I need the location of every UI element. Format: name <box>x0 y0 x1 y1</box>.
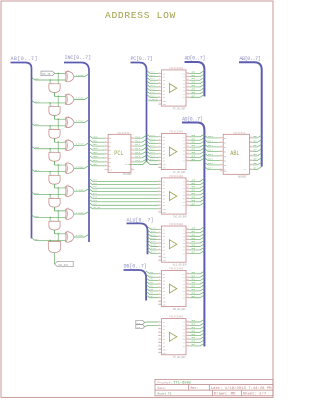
wire PCL6 to IC2 pin <box>147 155 159 158</box>
wire AD0 from IC6 pin <box>189 319 204 322</box>
pin stub right Q2 of ABL <box>250 146 253 148</box>
AND gate carry row 6 <box>49 221 60 230</box>
wire PCL6 to IC1 pin <box>147 91 159 94</box>
wire INC_IN to gate <box>55 72 66 74</box>
pin stub left A1 of IC1 <box>158 72 161 74</box>
XOR gate row 4 <box>64 163 67 173</box>
wire carry into row 5 <box>55 184 66 188</box>
wire carry out row 6 <box>54 230 56 234</box>
wire AD4 from IC3 pin <box>189 192 204 195</box>
svg-text:D4: D4 <box>109 154 111 156</box>
pin stub left D1 of PCL <box>105 141 109 143</box>
svg-text:PCLR03: PCLR03 <box>123 173 132 176</box>
wire AD1 from IC5 pin <box>189 274 204 277</box>
svg-text:D0: D0 <box>109 138 111 140</box>
junction on AB2 line <box>49 125 51 127</box>
wire INC7 from bus to PCL <box>89 163 105 166</box>
pin stub right Y6 of IC2 <box>186 153 189 155</box>
junction on carry line row 4 <box>57 164 59 166</box>
flag label INC_IN <box>41 71 55 76</box>
AND gate INC_OUT (final carry) <box>48 242 60 253</box>
wire AB6 to AB bus <box>253 162 262 165</box>
XOR gate row 1 <box>64 94 67 104</box>
XOR gate row 0 <box>64 71 67 81</box>
junction on AB0 line <box>49 79 51 81</box>
pin stub left A6 of IC2 <box>158 153 161 155</box>
buffer IC IC2 <box>162 133 187 169</box>
wire AD5 from IC2 pin <box>189 151 204 154</box>
pin stub right Y5 of IC2 <box>186 149 189 151</box>
pin stub left A7 of IC4 <box>158 249 161 251</box>
pin stub right Y5 of IC3 <box>186 194 189 196</box>
wire AB5 down to AND gate <box>49 195 51 199</box>
svg-text:ADDRESS LOW: ADDRESS LOW <box>105 10 176 21</box>
junction on carry line row 3 <box>57 141 59 143</box>
wire AB0 from bus <box>32 77 66 80</box>
svg-text:TP_AD_BUF: TP_AD_BUF <box>173 356 186 359</box>
wire DB7 to IC5 pin <box>146 295 158 298</box>
pin stub left A8 of IC2 <box>158 160 161 162</box>
wire carry into row 7 <box>55 230 66 234</box>
wire carry down to AND gate row 1 <box>57 96 59 106</box>
pin stub right Y1 of IC6 <box>186 321 189 323</box>
wire PCL2 to IC2 pin <box>147 141 159 144</box>
wire PC_AB OE control into IC1 <box>148 100 158 102</box>
wire AB1 down to AND gate <box>49 103 51 107</box>
svg-text:74LVC244A: 74LVC244A <box>169 267 183 270</box>
XOR gate row 3 <box>64 140 67 150</box>
AND gate carry row 0 <box>49 84 60 93</box>
wire AD6 from IC4 pin <box>189 247 204 250</box>
pin stub left OE2 of IC3 <box>158 211 161 213</box>
pin stub left OE1 of IC3 <box>158 208 161 210</box>
pin stub right Y3 of IC3 <box>186 187 189 189</box>
svg-text:74LVC573: 74LVC573 <box>117 132 130 135</box>
pin stub right Q6 of ABL <box>250 164 253 166</box>
wire ADL4 from AD bus to ABL <box>204 153 219 156</box>
svg-text:1 2: 1 2 <box>51 220 54 222</box>
pin stub left A5 of IC5 <box>158 286 161 288</box>
wire AB7 to AB bus <box>253 167 262 170</box>
wire AB4 down to AND gate <box>49 172 51 176</box>
wire INC2 from bus to PCL <box>89 143 105 146</box>
wire INC7 to IC3 pin <box>89 202 158 205</box>
pin stub left A4 of IC4 <box>158 239 161 241</box>
pin stub right Y2 of IC1 <box>186 76 189 78</box>
pin stub right Y5 of IC4 <box>186 242 189 244</box>
junction on carry line row 2 <box>57 118 59 120</box>
AND gate carry row 2 <box>49 130 60 139</box>
svg-text:AB[0..7]: AB[0..7] <box>11 56 38 62</box>
wire AB7 down to AND gate <box>49 240 51 241</box>
buffer triangle symbol of IC3 <box>169 192 176 201</box>
pin stub right Y3 of IC4 <box>186 235 189 237</box>
svg-text:PC_AD_BUF: PC_AD_BUF <box>173 171 186 174</box>
svg-text:Rev:: Rev: <box>191 386 199 390</box>
pin stub left A4 of IC1 <box>158 83 161 85</box>
pin stub left A1 of IC5 <box>158 273 161 275</box>
svg-text:D1: D1 <box>109 142 111 144</box>
wire INC6 to IC3 pin <box>89 199 158 202</box>
svg-text:AD[0..7]: AD[0..7] <box>185 56 205 62</box>
wire AD2 from IC1 pin <box>189 77 204 80</box>
wire PCL5 to IC1 pin <box>147 88 159 91</box>
buffer IC IC4 <box>162 226 187 262</box>
wire AD4 from IC4 pin <box>189 240 204 243</box>
pin stub right Q6 of PCL <box>131 161 134 163</box>
wire carry out row 3 <box>54 161 56 165</box>
pin stub right Y5 of IC1 <box>186 86 189 88</box>
wire INC5 from bus to PCL <box>89 155 105 158</box>
svg-text:ALU[0..7]: ALU[0..7] <box>127 217 154 223</box>
pin stub right Y3 of IC1 <box>186 79 189 81</box>
wire carry down to AND gate row 7 <box>57 234 59 242</box>
wire AD3 from IC1 pin <box>189 81 204 84</box>
wire INC3 output <box>74 143 89 146</box>
svg-text:74LVC244A: 74LVC244A <box>169 223 183 226</box>
svg-text:TTL-6502: TTL-6502 <box>173 382 191 386</box>
wire AD7 from IC4 pin <box>189 251 204 254</box>
pin stub right Y3 of IC6 <box>186 328 189 330</box>
wire AD5 from IC3 pin <box>189 196 204 199</box>
svg-text:74LVC244A: 74LVC244A <box>169 316 183 319</box>
wire AD3 from IC5 pin <box>189 281 204 284</box>
wire AB1 to AB bus <box>253 140 262 143</box>
wire AD6 from IC5 pin <box>189 292 204 295</box>
svg-text:1 2: 1 2 <box>51 197 54 199</box>
pin stub left D1 of ABL <box>220 141 223 143</box>
flag label TP_B into IC6 <box>136 325 145 329</box>
wire INC3 to IC3 pin <box>89 189 158 192</box>
pin stub right Q0 of ABL <box>250 137 253 139</box>
pin stub left A1 of IC6 <box>158 321 161 323</box>
wire AB3 down to AND gate <box>49 149 51 153</box>
pin stub right Y3 of IC2 <box>186 143 189 145</box>
buffer IC IC6 <box>162 319 187 355</box>
pin stub left A6 of IC4 <box>158 246 161 248</box>
wire to INC_OUT flag <box>54 253 56 264</box>
pin stub left A6 of IC5 <box>158 290 161 292</box>
wire ADL3 from AD bus to ABL <box>204 149 219 152</box>
svg-text:PC_AB_OE: PC_AB_OE <box>149 98 159 101</box>
svg-text:D7: D7 <box>109 166 111 168</box>
pin stub left A2 of IC2 <box>158 139 161 141</box>
pin stub right Q7 of ABL <box>250 168 253 170</box>
buffer triangle symbol of IC4 <box>169 240 176 249</box>
junction on AB3 line <box>49 148 51 150</box>
pin stub left D6 of PCL <box>105 161 109 163</box>
wire AB5 to AB bus <box>253 158 262 161</box>
buffer triangle symbol of IC2 <box>169 147 176 156</box>
pin stub left D5 of PCL <box>105 157 109 159</box>
wire AD7 from IC2 pin <box>189 158 204 161</box>
buffer IC IC3 <box>162 178 187 214</box>
wire carry out row 1 <box>54 115 56 119</box>
wire PCL5 to PC bus <box>134 155 146 158</box>
wire AD1 from IC2 pin <box>189 137 204 140</box>
svg-text:DB[0..7]: DB[0..7] <box>124 264 147 270</box>
wire AB3 to AB bus <box>253 149 262 152</box>
wire PCL4 to PC bus <box>134 151 146 154</box>
wire AD7 from IC3 pin <box>189 202 204 205</box>
svg-text:3 INC5: 3 INC5 <box>76 188 85 191</box>
pin stub right Y5 of IC6 <box>186 335 189 337</box>
wire ADL5 from AD bus to ABL <box>204 158 219 161</box>
svg-text:PC[0..7]: PC[0..7] <box>131 56 153 62</box>
pin stub left A7 of IC6 <box>158 342 161 344</box>
wire AD2 from IC6 pin <box>189 326 204 329</box>
wire AD0 from IC3 pin <box>189 179 204 182</box>
wire ADL6 from AD bus to ABL <box>204 162 219 165</box>
svg-text:3 INC3: 3 INC3 <box>76 143 85 146</box>
wire ALU1 to IC4 pin <box>148 230 159 233</box>
bus ALU[0..7] <box>127 223 148 254</box>
pin stub left A5 of IC3 <box>158 194 161 196</box>
pin stub left A8 of IC4 <box>158 252 161 254</box>
pin stub left A5 of IC2 <box>158 149 161 151</box>
wire AD4 from IC2 pin <box>189 148 204 151</box>
pin stub left A2 of IC6 <box>158 324 161 326</box>
wire DB5 to IC5 pin <box>146 288 158 291</box>
pin stub right Q1 of PCL <box>131 141 134 143</box>
pin stub right Y2 of IC2 <box>186 139 189 141</box>
wire INC7 output <box>74 234 89 237</box>
bus AD[0..7] segment 1 <box>185 62 205 96</box>
pin stub right Y6 of IC6 <box>186 338 189 340</box>
junction on AB5 line <box>49 194 51 196</box>
wire PCL2 to IC1 pin <box>147 77 159 80</box>
wire INC2 output <box>74 120 89 123</box>
pin stub right Y4 of IC6 <box>186 331 189 333</box>
wire carry out row 2 <box>54 138 56 142</box>
wire ALU0 to IC4 pin <box>148 227 159 230</box>
wire AB4 from bus <box>32 169 66 172</box>
svg-text:AB3: AB3 <box>35 146 40 149</box>
pin stub CLK of PCL <box>105 168 109 170</box>
pin stub left D3 of ABL <box>220 150 223 152</box>
pin stub right Y2 of IC5 <box>186 276 189 278</box>
svg-text:AD[0..7]: AD[0..7] <box>182 116 202 122</box>
wire INC_AB OE control into IC3 <box>89 206 158 209</box>
pin stub right Q3 of PCL <box>131 149 134 151</box>
pin stub left D2 of ABL <box>220 146 223 148</box>
wire AD2 from IC2 pin <box>189 141 204 144</box>
pin stub right Y8 of IC2 <box>186 160 189 162</box>
wire AD0 from IC4 pin <box>189 227 204 230</box>
wire ALU4 to IC4 pin <box>148 240 159 243</box>
pin stub left OE1 of IC4 <box>158 256 161 258</box>
pin stub left A4 of IC6 <box>158 331 161 333</box>
pin stub left OE1 of IC1 <box>158 100 161 102</box>
svg-text:ABL: ABL <box>230 150 239 157</box>
pin stub right Y1 of IC4 <box>186 228 189 230</box>
flag label TP_A into IC6 <box>136 320 145 324</box>
pin stub left A3 of IC1 <box>158 79 161 81</box>
svg-text:INC_AD_BUF: INC_AD_BUF <box>173 215 188 218</box>
wire AB0 to AB bus <box>253 135 262 138</box>
wire INC1 to IC3 pin <box>89 182 158 185</box>
wire AD3 from IC3 pin <box>189 189 204 192</box>
wire AB2 to AB bus <box>253 144 262 147</box>
pin stub right Y1 of IC2 <box>186 136 189 138</box>
wire AB2 down to AND gate <box>49 126 51 130</box>
buffer triangle symbol of IC5 <box>169 284 176 293</box>
pin stub left D4 of ABL <box>220 155 223 157</box>
wire AB6 down to AND gate <box>49 217 51 221</box>
svg-text:1 2: 1 2 <box>51 151 54 153</box>
pin stub left OE1 of IC5 <box>158 300 161 302</box>
wire AD2 from IC3 pin <box>189 185 204 188</box>
wire AB7 from bus <box>32 238 66 241</box>
pin stub right Y4 of IC5 <box>186 283 189 285</box>
wire AD3 from IC2 pin <box>189 144 204 147</box>
pin stub right Y4 of IC3 <box>186 191 189 193</box>
pin stub right Y8 of IC3 <box>186 204 189 206</box>
svg-text:Project:: Project: <box>158 381 173 385</box>
pin stub right Y8 of IC4 <box>186 252 189 254</box>
pin stub left D0 of PCL <box>105 137 109 139</box>
pin stub left D7 of ABL <box>220 168 223 170</box>
pin stub OC of PCL <box>131 168 134 170</box>
wire ALU2 to IC4 pin <box>148 233 159 236</box>
wire carry out row 0 <box>54 93 56 97</box>
bus AD[0..7] segment 2 <box>182 123 204 347</box>
XOR gate row 2 <box>64 117 67 127</box>
pin stub left A7 of IC2 <box>158 156 161 158</box>
svg-text:D2: D2 <box>224 147 226 149</box>
svg-text:74LVC244A: 74LVC244A <box>169 67 183 70</box>
wire PCL CLK to IC2 OE (hump over PC bus) <box>134 161 158 164</box>
wire AD2 from IC5 pin <box>189 278 204 281</box>
wire PCL7 to IC1 pin <box>147 94 159 97</box>
svg-text:3 INC2: 3 INC2 <box>76 120 85 123</box>
svg-text:PC_AD_BUF: PC_AD_BUF <box>173 107 186 110</box>
wire ADL7 from AD bus to ABL <box>204 167 219 170</box>
svg-text:PCL: PCL <box>114 150 123 157</box>
XOR gate row 7 <box>64 232 67 242</box>
svg-text:AB[0..7]: AB[0..7] <box>240 56 261 62</box>
wire PCL4 to IC2 pin <box>147 148 159 151</box>
pin stub left A3 of IC5 <box>158 280 161 282</box>
pin stub left A2 of IC5 <box>158 276 161 278</box>
pin stub right Y2 of IC4 <box>186 232 189 234</box>
wire AB6 from bus <box>32 215 66 218</box>
svg-text:74LVC244A: 74LVC244A <box>169 175 183 178</box>
svg-text:ABLR03: ABLR03 <box>238 175 247 178</box>
wire AD5 from IC6 pin <box>189 336 204 339</box>
pin stub right Q3 of ABL <box>250 150 253 152</box>
pin stub right Y7 of IC4 <box>186 249 189 251</box>
title block <box>155 379 273 395</box>
wire carry into row 1 <box>55 93 66 97</box>
svg-text:D5: D5 <box>224 160 226 162</box>
pin stub CLK of ABL <box>220 170 223 172</box>
wire carry down to AND gate row 4 <box>57 165 59 175</box>
pin stub left A8 of IC5 <box>158 297 161 299</box>
pin stub left A5 of IC1 <box>158 86 161 88</box>
buffer IC IC1 <box>162 70 187 106</box>
wire ALU7 to IC4 pin <box>148 251 159 254</box>
pin stub right Y6 of IC5 <box>186 290 189 292</box>
pin stub right Y5 of IC5 <box>186 286 189 288</box>
svg-text:INC_OUT: INC_OUT <box>58 264 68 267</box>
junction on AB4 line <box>49 171 51 173</box>
pin stub right Y7 of IC5 <box>186 293 189 295</box>
wire PCL2 to PC bus <box>134 143 146 146</box>
pin stub left A2 of IC3 <box>158 184 161 186</box>
wire INC2 to IC3 pin <box>89 185 158 188</box>
pin stub left A7 of IC3 <box>158 201 161 203</box>
svg-text:D0: D0 <box>224 138 226 140</box>
svg-text:INC[0..7]: INC[0..7] <box>65 55 92 61</box>
pin stub left OE2 of IC2 <box>158 167 161 169</box>
flag label INC_OUT <box>55 261 74 266</box>
wire PCL1 to PC bus <box>134 139 146 142</box>
pin stub left D5 of ABL <box>220 159 223 161</box>
wire AD4 from IC6 pin <box>189 333 204 336</box>
pin stub left OE2 of IC6 <box>158 352 161 354</box>
wire AD6 from IC1 pin <box>189 91 204 94</box>
wire INC0 to IC3 pin <box>89 179 158 182</box>
wire AD2 from IC4 pin <box>189 233 204 236</box>
wire AB5 from bus <box>32 192 66 195</box>
svg-text:Last: 1/18/2013 7:44:28 PM: Last: 1/18/2013 7:44:28 PM <box>211 386 272 391</box>
wire ALU3 to IC4 pin <box>148 237 159 240</box>
wire AD5 from IC4 pin <box>189 244 204 247</box>
wire AD7 from IC1 pin <box>189 94 204 97</box>
svg-text:INC_OE: INC_OE <box>93 206 101 209</box>
wire AD3 from IC6 pin <box>189 329 204 332</box>
wire PCL6 to PC bus <box>134 159 146 162</box>
wire INC0 output <box>74 74 89 77</box>
junction on AB7 line <box>49 240 51 242</box>
wire AB4 to AB bus <box>253 153 262 156</box>
wire flag TP_B to IC6 pin 2 <box>145 325 159 326</box>
pin stub left D7 of PCL <box>105 165 109 167</box>
wire INC1 from bus to PCL <box>89 139 105 142</box>
wire ADL2 from AD bus to ABL <box>204 144 219 147</box>
svg-text:Sheet: 2/7: Sheet: 2/7 <box>243 392 267 397</box>
wire PCL1 to IC1 pin <box>147 74 159 77</box>
wire ADL1 from AD bus to ABL <box>204 140 219 143</box>
svg-text:OC: OC <box>125 164 127 166</box>
svg-text:ALU_AD_BUF: ALU_AD_BUF <box>173 263 188 266</box>
pin stub left OE1 of IC6 <box>158 349 161 351</box>
svg-text:1 2: 1 2 <box>51 128 54 130</box>
svg-text:AB5: AB5 <box>35 192 40 195</box>
wire INC5 to IC3 pin <box>89 196 158 199</box>
wire PCL3 to IC1 pin <box>147 81 159 84</box>
pin stub left A6 of IC1 <box>158 89 161 91</box>
svg-text:AB2: AB2 <box>35 123 40 126</box>
wire INC0 from bus to PCL <box>89 135 105 138</box>
pin stub left A2 of IC4 <box>158 232 161 234</box>
svg-text:3 INC1: 3 INC1 <box>76 97 85 100</box>
pin stub left OE2 of IC5 <box>158 304 161 306</box>
pin stub right Q5 of ABL <box>250 159 253 161</box>
pin stub right Y4 of IC2 <box>186 146 189 148</box>
svg-text:D3: D3 <box>224 151 226 153</box>
svg-text:Drawn: MD: Drawn: MD <box>214 392 236 397</box>
wire carry down to AND gate row 3 <box>57 142 59 152</box>
wire DB2 to IC5 pin <box>146 278 158 281</box>
pin stub left A3 of IC6 <box>158 328 161 330</box>
pin stub right Y1 of IC3 <box>186 180 189 182</box>
pin stub right Y3 of IC5 <box>186 280 189 282</box>
pin stub left A4 of IC3 <box>158 191 161 193</box>
pin stub right Y2 of IC3 <box>186 184 189 186</box>
bus PC[0..7] <box>131 63 147 163</box>
